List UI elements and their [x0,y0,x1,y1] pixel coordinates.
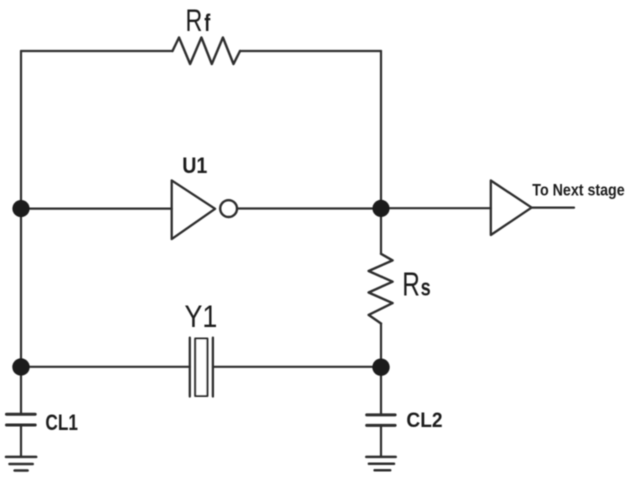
wire node B to buffer input [381,207,491,209]
node B (junction dot output) [372,200,389,217]
capacitor CL1 [7,414,36,425]
capacitor CL2 [367,415,395,426]
node D (junction dot right-bottom) [372,359,389,376]
wire U1 input (node A to U1) [21,208,172,210]
U1 inversion bubble [220,200,237,217]
svg-text:Rs: Rs [402,267,430,303]
wire buffer output [532,207,574,209]
label Rs [402,267,430,303]
op-amp U1 (inverter triangle) [172,180,215,239]
node C (junction dot left-bottom) [12,358,29,375]
svg-text:Y1: Y1 [185,299,218,335]
label To Next stage [532,182,624,200]
node A (junction dot left-mid) [12,200,29,217]
wire CL2 to ground [380,426,382,455]
wire bottom-right horizontal (Y1 to node D) [213,366,381,368]
wire left vertical (node A rail) [20,51,22,413]
wire Rs to node D [380,324,382,415]
crystal Y1 body [195,339,207,397]
svg-text:To Next stage: To Next stage [532,182,624,200]
buffer amplifier (to next stage) [491,181,532,236]
wire top-left horizontal (node A to Rf) [21,50,173,52]
svg-text:CL2: CL2 [406,409,442,432]
resistor Rf [173,38,241,65]
ground (right) [366,457,395,470]
label CL1 [45,411,78,435]
svg-text:U1: U1 [182,154,207,178]
svg-text:CL1: CL1 [45,411,78,435]
crystal Y1 left plate [189,338,191,397]
wire CL1 to ground [20,426,22,456]
wire node B to Rs [380,208,382,253]
wire bottom-left horizontal (node C to Y1) [21,366,190,368]
svg-text:Rf: Rf [186,3,211,38]
label Rf [186,3,211,38]
wire top-right horizontal (Rf to node B) [240,50,381,52]
crystal Y1 right plate [212,338,214,397]
ground (left) [6,457,36,471]
resistor Rs [369,254,393,324]
label U1 [182,154,207,178]
label Y1 [185,299,218,335]
wire right vertical upper (top to node B) [380,51,382,208]
wire U1 output to node B [238,207,381,209]
label CL2 [406,409,442,432]
